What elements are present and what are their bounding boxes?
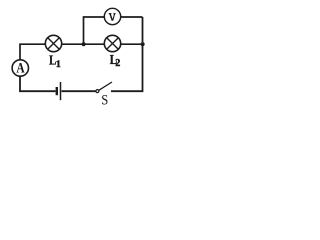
lamp L2 [104,35,120,51]
switch S pivot [96,90,99,93]
voltmeter V [104,8,120,24]
svg-text:A: A [16,61,25,77]
svg-text:S: S [101,93,108,108]
node junction J2 (top wire / voltmeter branch right) [141,42,145,46]
node junction J1 (top wire / voltmeter branch left) [82,42,86,46]
battery cell: short thick negative plate [56,87,58,95]
battery cell: long thin positive plate [60,82,62,100]
wire voltmeter branch left and top [84,17,105,44]
wire L2 to right side [121,43,143,45]
lamp L1 [45,35,61,51]
wire battery to switch [62,90,97,92]
wire between L1 and L2 [62,43,104,45]
wire top-left: corner to lamp L1 [20,44,45,60]
wire left-bottom: ammeter to bottom-left corner to battery [20,76,56,91]
wire switch to bottom-right corner up right side [111,17,143,91]
switch S lever [99,82,112,90]
wire voltmeter to top-right corner [121,16,143,18]
svg-text:2: 2 [115,58,120,69]
ammeter A [12,60,28,77]
svg-text:1: 1 [56,59,61,70]
